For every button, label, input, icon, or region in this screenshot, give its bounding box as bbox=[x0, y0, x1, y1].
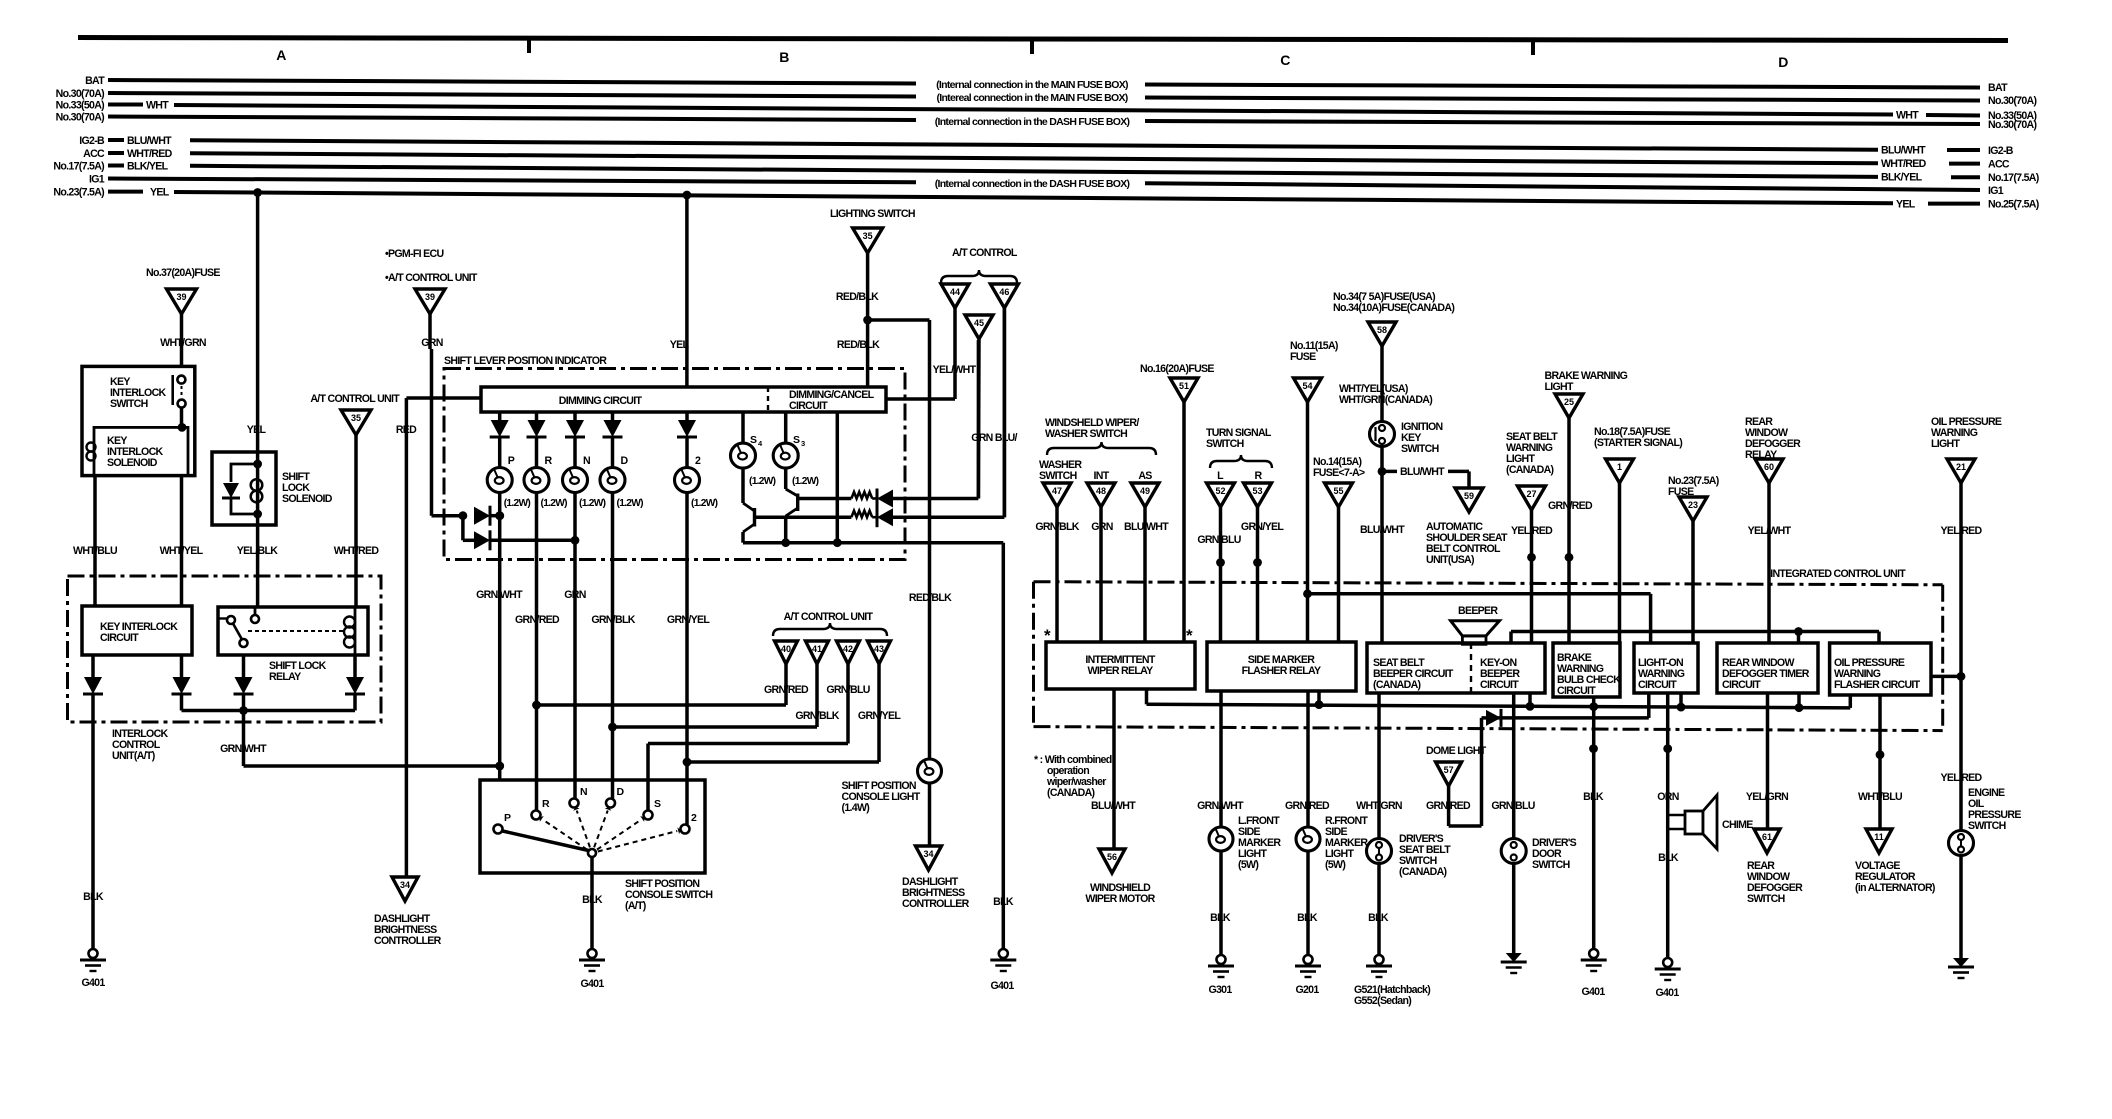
engine oil pressure switch bbox=[1940, 772, 2021, 958]
wire fuse54 to light-on circuit bbox=[1308, 594, 1651, 643]
indicator diode R bbox=[527, 412, 547, 468]
shift lever position indicator dashed box bbox=[444, 355, 905, 560]
wire YEL drop to shift lock solenoid bbox=[247, 188, 267, 452]
svg-text:ACC: ACC bbox=[1988, 159, 2010, 171]
connector 41 bbox=[795, 641, 839, 727]
svg-text:R: R bbox=[542, 798, 550, 810]
svg-text:R: R bbox=[1255, 470, 1263, 482]
svg-text:IG2-B: IG2-B bbox=[79, 135, 105, 147]
svg-text:GRN: GRN bbox=[564, 589, 585, 601]
resistor + arrow (lower, to connector 46) bbox=[851, 309, 1004, 527]
svg-text:•A/T CONTROL UNIT: •A/T CONTROL UNIT bbox=[385, 272, 478, 284]
svg-text:BLK: BLK bbox=[1210, 912, 1231, 924]
console switch contact S bbox=[644, 798, 662, 820]
svg-text:INT: INT bbox=[1094, 470, 1110, 482]
svg-text:D: D bbox=[621, 455, 629, 467]
indicator diode N bbox=[565, 412, 585, 468]
wire GRN/RED to R marker bbox=[1285, 691, 1330, 827]
connector 11 voltage regulator bbox=[1855, 829, 1935, 894]
connector 48 INT bbox=[1087, 470, 1115, 642]
fuse No.16(20A) bbox=[1140, 363, 1214, 642]
fuse No.23(7.5A) bbox=[1668, 475, 1719, 643]
svg-text:WHT/RED: WHT/RED bbox=[334, 545, 380, 557]
wire ORN to chime bbox=[1657, 693, 1679, 958]
wire WHT/BLU bbox=[73, 476, 117, 606]
svg-text:GRN/BLK: GRN/BLK bbox=[591, 614, 635, 626]
svg-text:23: 23 bbox=[1688, 500, 1698, 510]
svg-text:A/T CONTROL UNIT: A/T CONTROL UNIT bbox=[784, 611, 874, 623]
svg-text:WHT/RED: WHT/RED bbox=[1881, 158, 1927, 170]
bus wire BAT bbox=[85, 75, 2008, 94]
indicator diode P bbox=[490, 412, 510, 468]
svg-text:45: 45 bbox=[974, 318, 984, 328]
svg-text:No.30(70A): No.30(70A) bbox=[1988, 95, 2037, 107]
svg-text:AS: AS bbox=[1138, 470, 1152, 482]
svg-text:(CANADA): (CANADA) bbox=[1047, 787, 1095, 799]
svg-text:C: C bbox=[1280, 52, 1290, 68]
bus wire No.17(7.5A) BLK/YEL bbox=[53, 161, 2038, 185]
key interlock switch box bbox=[82, 366, 195, 475]
svg-text:40: 40 bbox=[781, 644, 791, 654]
svg-text:(in ALTERNATOR): (in ALTERNATOR) bbox=[1855, 882, 1935, 894]
PGM-FI ECU label bbox=[385, 248, 478, 284]
svg-text:BLU/WHT: BLU/WHT bbox=[127, 135, 172, 147]
svg-text:DIMMING CIRCUIT: DIMMING CIRCUIT bbox=[559, 395, 643, 407]
connector 47 bbox=[1035, 483, 1079, 642]
wire YEL/BLK bbox=[237, 525, 278, 607]
indicator lamp N (1.2W) bbox=[563, 455, 606, 799]
transistor Q2 bbox=[786, 468, 852, 543]
svg-text:RELAY: RELAY bbox=[269, 671, 301, 683]
transistor Q1 bbox=[743, 468, 851, 543]
windshield wiper/washer switch label bbox=[1045, 417, 1156, 455]
svg-text:No.37(20A)FUSE: No.37(20A)FUSE bbox=[146, 267, 220, 279]
fuse No.34 bbox=[1333, 291, 1454, 422]
svg-text:(1.4W): (1.4W) bbox=[842, 802, 870, 814]
shift lock solenoid coil bbox=[251, 452, 263, 525]
A/T control unit connectors label bbox=[773, 611, 887, 636]
bus wire No.30(70A) bbox=[56, 88, 2037, 107]
shift lock solenoid box bbox=[212, 452, 333, 525]
wire RED/BLK bbox=[836, 253, 952, 759]
wire YEL drop to dimming circuit bbox=[670, 191, 692, 387]
svg-text:WHT/GRN: WHT/GRN bbox=[1356, 800, 1402, 812]
svg-text:GRN: GRN bbox=[1091, 521, 1112, 533]
svg-text:A/T CONTROL: A/T CONTROL bbox=[952, 247, 1018, 259]
svg-text:53: 53 bbox=[1252, 486, 1262, 496]
svg-text:UNIT(USA): UNIT(USA) bbox=[1426, 554, 1474, 566]
svg-text:YEL: YEL bbox=[1896, 198, 1916, 210]
svg-text:43: 43 bbox=[874, 644, 884, 654]
svg-text:No.23(7.5A): No.23(7.5A) bbox=[53, 187, 104, 199]
connector 49 AS bbox=[1124, 470, 1169, 642]
svg-text:GRN/WHT: GRN/WHT bbox=[220, 743, 267, 755]
svg-text:(Intereal connection in the MA: (Intereal connection in the MAIN FUSE BO… bbox=[936, 92, 1127, 104]
svg-text:(1.2W): (1.2W) bbox=[691, 498, 718, 509]
svg-text:BLK: BLK bbox=[582, 894, 603, 906]
svg-text:YEL/GRN: YEL/GRN bbox=[1746, 791, 1788, 803]
svg-text:FUSE<7-A>: FUSE<7-A> bbox=[1313, 467, 1365, 479]
indicator lamp D (1.2W) bbox=[600, 455, 643, 799]
A/T control connectors label bbox=[941, 247, 1018, 283]
wire WHT/GRN to seat belt switch bbox=[1356, 693, 1402, 839]
svg-text:YEL: YEL bbox=[150, 187, 170, 199]
svg-text:34: 34 bbox=[923, 849, 933, 859]
wire BLK console switch bbox=[582, 873, 603, 949]
lamp S3 (1.2W) bbox=[773, 412, 818, 487]
beeper bbox=[1451, 605, 1500, 644]
side marker flasher relay box bbox=[1207, 642, 1356, 691]
svg-text:57: 57 bbox=[1444, 765, 1454, 775]
svg-text:SOLENOID: SOLENOID bbox=[107, 457, 158, 469]
wire BLK bulb check to G401 bbox=[1583, 697, 1604, 949]
L front side marker light bbox=[1209, 815, 1281, 955]
svg-text:SWITCH: SWITCH bbox=[1039, 470, 1077, 482]
svg-text:BLK: BLK bbox=[1297, 912, 1318, 924]
svg-text:BLK: BLK bbox=[83, 891, 104, 903]
driver's seat belt switch bbox=[1367, 833, 1452, 955]
svg-text:CONTROLLER: CONTROLLER bbox=[374, 935, 442, 947]
svg-text:BLK: BLK bbox=[1368, 912, 1389, 924]
svg-text:BLU/WHT: BLU/WHT bbox=[1360, 524, 1405, 536]
connector 53 R bbox=[1241, 470, 1284, 642]
diode (shift lock relay coil) bbox=[345, 655, 365, 711]
svg-text:A/T CONTROL UNIT: A/T CONTROL UNIT bbox=[310, 393, 400, 405]
svg-text:P: P bbox=[504, 812, 511, 824]
svg-text:49: 49 bbox=[1140, 486, 1150, 496]
svg-text:G201: G201 bbox=[1295, 984, 1319, 996]
svg-text:GRN/BLK: GRN/BLK bbox=[1035, 521, 1079, 533]
svg-text:RED: RED bbox=[396, 424, 417, 436]
svg-text:SWITCH: SWITCH bbox=[1401, 443, 1439, 455]
svg-text:WHT/BLU: WHT/BLU bbox=[73, 545, 117, 557]
diode (WHT/BLU to ground) bbox=[83, 655, 103, 949]
svg-text:46: 46 bbox=[999, 287, 1009, 297]
svg-text:SWITCH: SWITCH bbox=[110, 398, 148, 410]
svg-text:RED/BLK: RED/BLK bbox=[909, 592, 952, 604]
wire GRN/BLU to S bbox=[648, 744, 848, 811]
svg-text:25: 25 bbox=[1564, 397, 1574, 407]
driver's door switch bbox=[1501, 837, 1576, 953]
svg-text:GRN/WHT: GRN/WHT bbox=[1197, 800, 1244, 812]
wire labels under dimming circuit bbox=[476, 589, 710, 626]
light-on warning circuit box bbox=[1634, 643, 1698, 693]
R front side marker light bbox=[1296, 815, 1368, 955]
svg-text:(Internal connection in the MA: (Internal connection in the MAIN FUSE BO… bbox=[936, 79, 1128, 91]
wire GRN/BLU to door switch bbox=[1491, 693, 1534, 839]
svg-text:IG2-B: IG2-B bbox=[1988, 145, 2014, 157]
connector 39 (key interlock) bbox=[167, 289, 197, 314]
svg-text:BEEPER: BEEPER bbox=[1458, 605, 1498, 617]
svg-text:(STARTER SIGNAL): (STARTER SIGNAL) bbox=[1594, 437, 1682, 449]
svg-text:SWITCH: SWITCH bbox=[1747, 893, 1785, 905]
svg-text:No.17(7.5A): No.17(7.5A) bbox=[53, 161, 104, 173]
svg-text:47: 47 bbox=[1052, 486, 1062, 496]
ground (engine oil pressure switch) bbox=[1953, 958, 1969, 967]
svg-text:BLK/YEL: BLK/YEL bbox=[127, 161, 169, 173]
diode merge wire bbox=[182, 706, 356, 715]
svg-text:IG1: IG1 bbox=[89, 174, 105, 186]
svg-text:52: 52 bbox=[1215, 486, 1225, 496]
svg-text:21: 21 bbox=[1956, 462, 1966, 472]
svg-text:48: 48 bbox=[1096, 486, 1106, 496]
svg-text:No.34(10A)FUSE(CANADA): No.34(10A)FUSE(CANADA) bbox=[1333, 302, 1454, 314]
svg-text:39: 39 bbox=[176, 292, 186, 302]
wire YEL/GRN to defogger switch bbox=[1746, 693, 1788, 829]
svg-text:UNIT(A/T): UNIT(A/T) bbox=[112, 750, 155, 762]
wire dimming/cancel to emitter rail bbox=[836, 412, 840, 543]
connector 46 bbox=[990, 284, 1018, 517]
bus wire No.30(70A) dash bbox=[56, 112, 2037, 132]
icu bottom rail bbox=[1147, 689, 1851, 712]
interlock control unit dashed box bbox=[68, 576, 382, 762]
ground G401 (bulb check) bbox=[1581, 949, 1607, 998]
svg-text:27: 27 bbox=[1526, 489, 1536, 499]
diode (shift lock relay switch) bbox=[234, 655, 254, 711]
connector 60 rear window defogger relay bbox=[1748, 459, 1792, 643]
svg-text:A: A bbox=[276, 47, 286, 63]
svg-text:G401: G401 bbox=[1581, 986, 1605, 998]
svg-text:3: 3 bbox=[801, 439, 805, 448]
svg-text:No.17(7.5A): No.17(7.5A) bbox=[1988, 172, 2039, 184]
svg-text:60: 60 bbox=[1764, 462, 1774, 472]
connector 40 bbox=[764, 641, 809, 705]
seat belt beeper circuit / key-on beeper circuit box bbox=[1367, 643, 1545, 693]
wire GRN/WHT from interlock bbox=[220, 711, 504, 771]
integrated control unit dashed box bbox=[1034, 568, 1943, 731]
dimming circuit box bbox=[481, 387, 886, 412]
oil box link to YEL/RED wire bbox=[1931, 672, 1965, 681]
svg-text:P: P bbox=[508, 455, 515, 467]
svg-text:GRN BLU/: GRN BLU/ bbox=[971, 432, 1017, 444]
svg-text:No.33(50A): No.33(50A) bbox=[56, 100, 105, 112]
svg-text:SOLENOID: SOLENOID bbox=[282, 493, 333, 505]
svg-text:BLK: BLK bbox=[1658, 852, 1679, 864]
wire BLK to G401 (indicator) bbox=[993, 543, 1014, 949]
emitter rail bbox=[743, 538, 1003, 547]
wire GRN/WHT to L marker bbox=[1197, 691, 1244, 827]
svg-text:LIGHTING SWITCH: LIGHTING SWITCH bbox=[830, 208, 915, 220]
diode dome light to light-on circuit bbox=[1482, 693, 1649, 727]
svg-text:GRN/YEL: GRN/YEL bbox=[858, 710, 901, 722]
connector 52 L bbox=[1197, 470, 1240, 642]
svg-text:ACC: ACC bbox=[83, 148, 105, 160]
svg-text:G401: G401 bbox=[81, 977, 105, 989]
svg-text:CIRCUIT: CIRCUIT bbox=[1480, 679, 1519, 691]
console switch common + blade bbox=[503, 807, 681, 873]
brake warning bulb check circuit box bbox=[1553, 643, 1621, 697]
svg-text:D: D bbox=[1778, 54, 1788, 70]
svg-text:(1.2W): (1.2W) bbox=[541, 498, 568, 509]
indicator lamp 2 (1.2W) bbox=[675, 455, 718, 825]
svg-text:BAT: BAT bbox=[1988, 82, 2008, 94]
svg-text:S: S bbox=[793, 434, 800, 446]
bus wire No.33(50A) WHT bbox=[56, 100, 2037, 123]
bus wire ACC WHT/RED bbox=[83, 148, 2010, 171]
svg-text:59: 59 bbox=[1464, 491, 1474, 501]
key interlock solenoid box bbox=[87, 423, 189, 476]
connector 34 (dashlight brightness controller left) bbox=[374, 877, 442, 947]
svg-text:(CANADA): (CANADA) bbox=[1506, 464, 1554, 476]
bus wire IG1 bbox=[89, 174, 2004, 198]
svg-text:42: 42 bbox=[843, 644, 853, 654]
connector 39 (PGM-FI ECU) bbox=[415, 289, 445, 314]
ignition key switch bbox=[1370, 421, 1443, 455]
shift position console switch box bbox=[480, 780, 712, 912]
shift lock solenoid diode bbox=[222, 460, 262, 519]
svg-text:No.25(7.5A): No.25(7.5A) bbox=[1988, 199, 2039, 211]
svg-text:(1.2W): (1.2W) bbox=[504, 498, 531, 509]
svg-text:CIRCUIT: CIRCUIT bbox=[1722, 679, 1761, 691]
shift lock relay coil bbox=[344, 607, 355, 655]
intermittent wiper relay box bbox=[1044, 626, 1195, 689]
ground G401 (chime) bbox=[1655, 958, 1681, 999]
svg-text:YEL/WHT: YEL/WHT bbox=[933, 364, 977, 376]
console switch contact R bbox=[532, 798, 551, 820]
connector 21 oil pressure warning light bbox=[1940, 459, 1982, 831]
indicator diode 2 bbox=[677, 412, 697, 468]
svg-text:WIPER MOTOR: WIPER MOTOR bbox=[1085, 893, 1155, 905]
svg-text:YEL: YEL bbox=[247, 424, 267, 436]
ground (driver's door switch) bbox=[1506, 953, 1522, 962]
ground G401 (indicator) bbox=[990, 949, 1016, 992]
svg-text:35: 35 bbox=[351, 413, 361, 423]
fuse No.14(15A) bbox=[1313, 456, 1365, 642]
svg-text:WASHER SWITCH: WASHER SWITCH bbox=[1045, 428, 1127, 440]
connector 56 windshield wiper motor bbox=[1085, 849, 1155, 905]
svg-text:G401: G401 bbox=[1655, 987, 1679, 999]
svg-text:(1.2W): (1.2W) bbox=[749, 476, 776, 487]
svg-text:FLASHER CIRCUIT: FLASHER CIRCUIT bbox=[1834, 679, 1921, 691]
resistor + arrow (upper, to connector 45) bbox=[851, 340, 978, 509]
svg-text:61: 61 bbox=[1762, 832, 1772, 842]
wire BLU/WHT to wiper motor bbox=[1091, 689, 1136, 849]
svg-text:CIRCUIT: CIRCUIT bbox=[1638, 679, 1677, 691]
shift lock relay box bbox=[218, 607, 368, 683]
rear window defogger timer circuit box bbox=[1717, 643, 1818, 693]
wire WHT/BLU to voltage regulator bbox=[1858, 695, 1902, 829]
console switch contact P bbox=[494, 812, 512, 834]
wire GRN/YEL to 2 bbox=[683, 758, 879, 767]
svg-text:GRN: GRN bbox=[421, 337, 442, 349]
svg-text:2: 2 bbox=[691, 812, 697, 824]
svg-text:GRN/BLU: GRN/BLU bbox=[1197, 534, 1240, 546]
svg-text:BLU/WHT: BLU/WHT bbox=[1881, 145, 1926, 157]
svg-text:51: 51 bbox=[1179, 381, 1189, 391]
connector 45 bbox=[965, 315, 1018, 499]
svg-text:DOME LIGHT: DOME LIGHT bbox=[1426, 745, 1487, 757]
svg-text:G401: G401 bbox=[990, 980, 1014, 992]
svg-text:GRN/YEL: GRN/YEL bbox=[1241, 521, 1284, 533]
wire BLK to G401 bbox=[83, 891, 104, 903]
svg-text:RED/BLK: RED/BLK bbox=[836, 291, 879, 303]
svg-text:N: N bbox=[583, 455, 590, 467]
svg-text:G401: G401 bbox=[580, 978, 604, 990]
console switch contact N bbox=[570, 786, 588, 808]
diode pair to P and N wires bbox=[432, 506, 580, 551]
icu top rail to key-on and oil boxes bbox=[1511, 627, 1879, 643]
svg-text:CONTROLLER: CONTROLLER bbox=[902, 898, 970, 910]
svg-text:SWITCH: SWITCH bbox=[1206, 438, 1244, 450]
svg-text:INTEGRATED CONTROL UNIT: INTEGRATED CONTROL UNIT bbox=[1770, 568, 1906, 580]
connector 35 (lighting switch) bbox=[853, 228, 883, 253]
svg-text:(CANADA): (CANADA) bbox=[1399, 866, 1447, 878]
dome light connector 57 bbox=[1426, 718, 1487, 826]
indicator lamp P (1.2W) bbox=[487, 455, 530, 780]
svg-text:GRN/WHT: GRN/WHT bbox=[476, 589, 523, 601]
ground G301 bbox=[1208, 955, 1234, 996]
svg-text:11: 11 bbox=[1874, 832, 1884, 842]
key interlock switch contacts bbox=[173, 375, 186, 427]
bus wire IG2-B BLU/WHT bbox=[79, 135, 2014, 157]
wire RED to A/T control unit bbox=[396, 398, 481, 877]
svg-text:SWITCH: SWITCH bbox=[1968, 820, 2006, 832]
wire WHT/GRN bbox=[160, 314, 206, 366]
svg-text:B: B bbox=[779, 49, 789, 65]
svg-text:No.30(70A): No.30(70A) bbox=[56, 88, 105, 100]
svg-text:IG1: IG1 bbox=[1988, 185, 2004, 197]
svg-text:WHT/BLU: WHT/BLU bbox=[1858, 791, 1902, 803]
svg-text:YEL/BLK: YEL/BLK bbox=[237, 545, 278, 557]
svg-text:BLK: BLK bbox=[993, 896, 1014, 908]
wire P junction with interlock GRN/WHT bbox=[495, 762, 504, 771]
svg-text:GRN/YEL: GRN/YEL bbox=[667, 614, 710, 626]
connector 44 bbox=[886, 284, 977, 399]
svg-text:ORN: ORN bbox=[1657, 791, 1678, 803]
ground G401 (console switch) bbox=[579, 949, 605, 990]
bus wire No.23(7.5A) YEL bbox=[53, 187, 2038, 211]
svg-text:GRN/BLK: GRN/BLK bbox=[795, 710, 839, 722]
shift position console light (1.4W) bbox=[842, 759, 942, 846]
svg-text:D: D bbox=[617, 786, 625, 798]
svg-text:YEL/WHT: YEL/WHT bbox=[1748, 525, 1792, 537]
svg-text:BLK/YEL: BLK/YEL bbox=[1881, 172, 1923, 184]
svg-text:56: 56 bbox=[1107, 852, 1117, 862]
svg-text:YEL/RED: YEL/RED bbox=[1940, 525, 1982, 537]
svg-text:WIPER RELAY: WIPER RELAY bbox=[1088, 665, 1154, 677]
svg-text:58: 58 bbox=[1377, 325, 1387, 335]
svg-text:(CANADA): (CANADA) bbox=[1373, 679, 1421, 691]
svg-text:SWITCH: SWITCH bbox=[1532, 859, 1570, 871]
wire GRN/RED to R bbox=[532, 701, 786, 710]
svg-text:YEL/RED: YEL/RED bbox=[1940, 772, 1982, 784]
svg-text:YEL/RED: YEL/RED bbox=[1511, 525, 1553, 537]
connector 61 rear window defogger switch bbox=[1747, 829, 1803, 905]
svg-text:G552(Sedan): G552(Sedan) bbox=[1354, 995, 1411, 1007]
connector 35 (A/T control unit) bbox=[341, 410, 371, 435]
svg-text:R: R bbox=[545, 455, 553, 467]
svg-text:(1.2W): (1.2W) bbox=[579, 498, 606, 509]
svg-text:2: 2 bbox=[695, 455, 701, 467]
svg-text:S: S bbox=[654, 798, 661, 810]
frame ruler bbox=[78, 38, 2008, 71]
svg-text:(1.2W): (1.2W) bbox=[792, 476, 819, 487]
svg-text:BLU/WHT: BLU/WHT bbox=[1091, 800, 1136, 812]
connector 42 bbox=[826, 641, 869, 744]
key interlock circuit box bbox=[82, 606, 192, 655]
svg-text:55: 55 bbox=[1333, 486, 1343, 496]
wire WHT/RED bbox=[334, 435, 380, 607]
ground G201 bbox=[1295, 955, 1321, 996]
svg-text:(5W): (5W) bbox=[1325, 859, 1345, 871]
svg-text:(Internal connection in the DA: (Internal connection in the DASH FUSE BO… bbox=[935, 116, 1130, 128]
svg-text:BLK: BLK bbox=[1583, 791, 1604, 803]
svg-text:CIRCUIT: CIRCUIT bbox=[1557, 685, 1596, 697]
svg-text:41: 41 bbox=[812, 644, 822, 654]
svg-text:CIRCUIT: CIRCUIT bbox=[789, 400, 828, 412]
fuse No.11(15A) bbox=[1290, 340, 1338, 642]
indicator lamp R (1.2W) bbox=[524, 455, 567, 811]
